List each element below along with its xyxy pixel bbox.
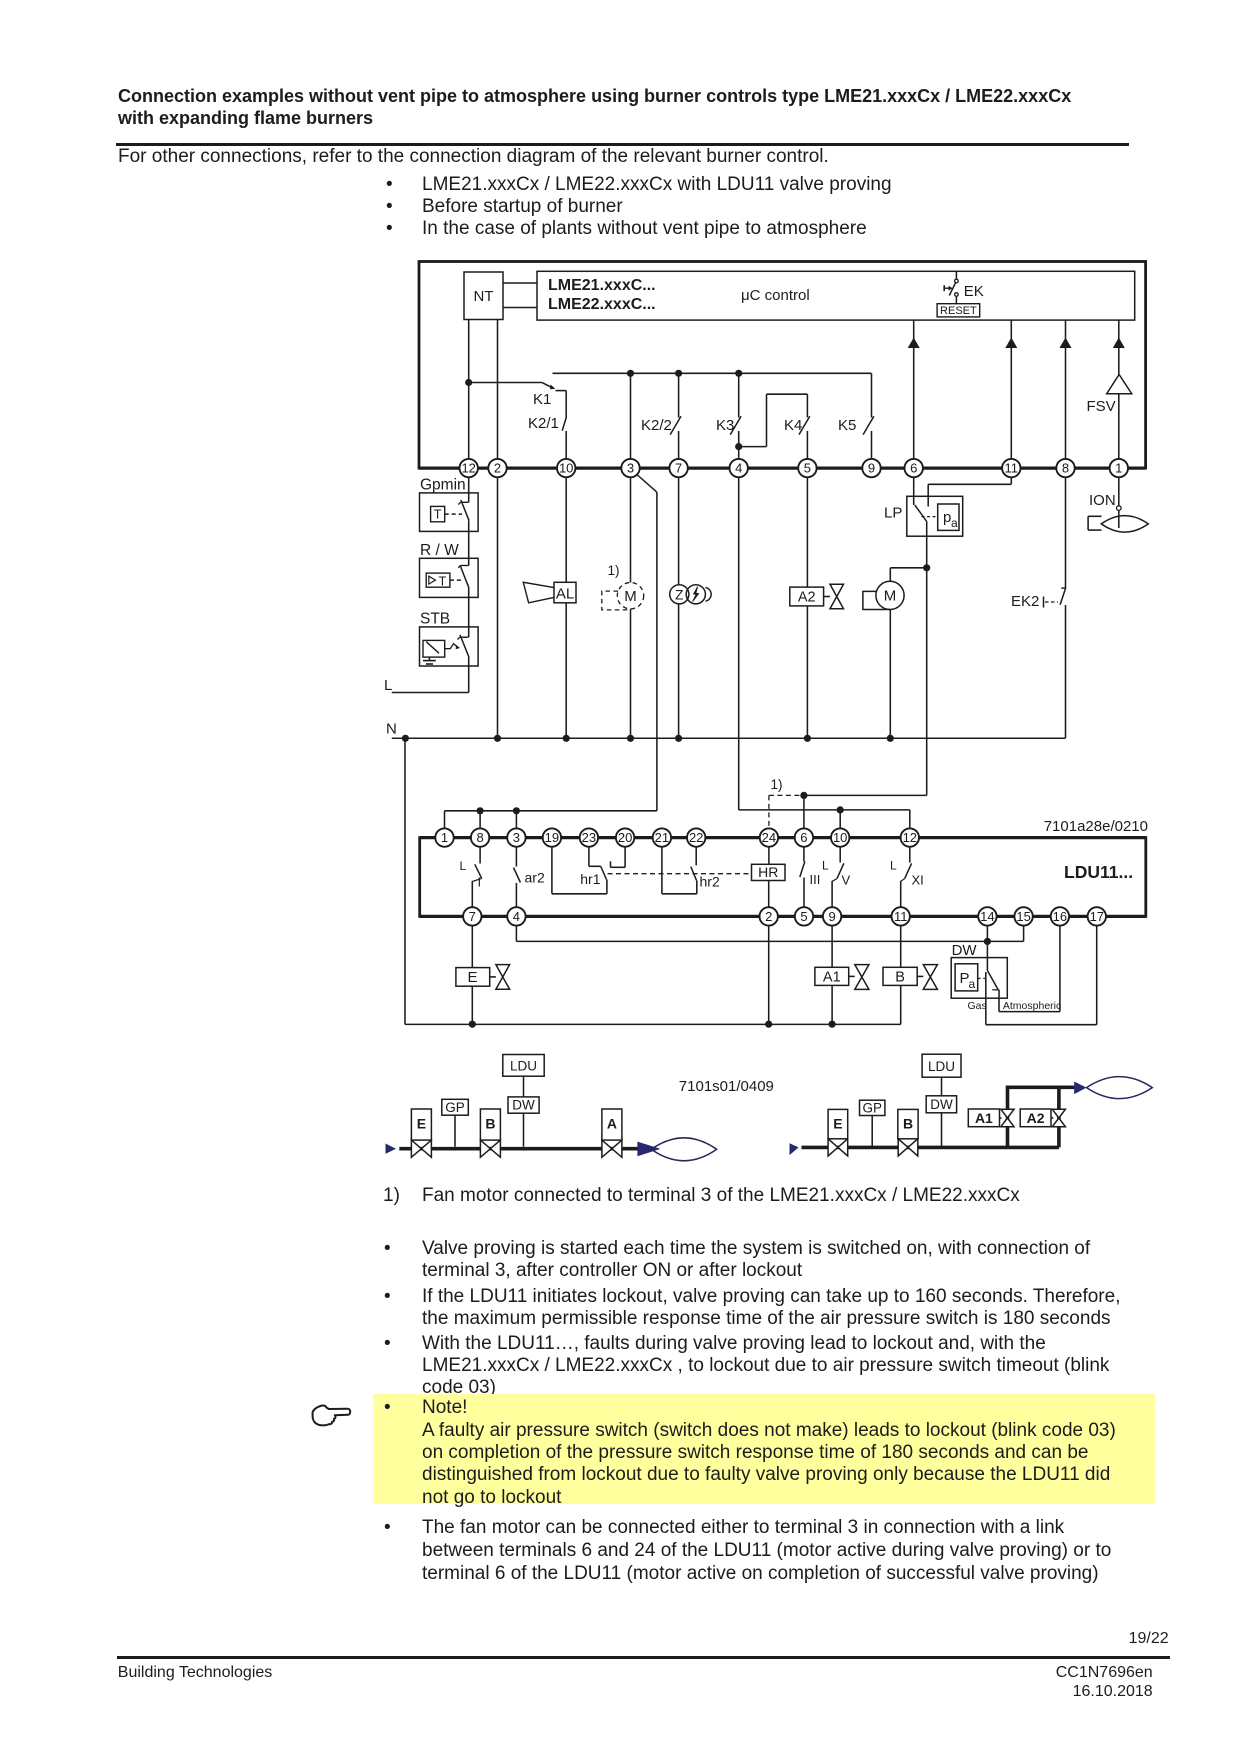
svg-text:Gpmin: Gpmin	[420, 477, 466, 494]
svg-text:6: 6	[910, 461, 917, 476]
svg-text:T: T	[434, 508, 442, 522]
svg-text:2: 2	[765, 909, 772, 924]
svg-text:19: 19	[545, 830, 559, 845]
svg-text:EK2: EK2	[1011, 593, 1039, 610]
svg-text:8: 8	[1062, 461, 1069, 476]
svg-text:4: 4	[735, 461, 742, 476]
svg-text:LP: LP	[884, 505, 902, 522]
svg-text:Gas: Gas	[968, 1000, 987, 1012]
svg-text:K1: K1	[533, 391, 551, 408]
svg-text:STB: STB	[420, 611, 450, 628]
svg-text:V: V	[842, 873, 851, 888]
svg-text:K3: K3	[716, 417, 734, 434]
svg-text:9: 9	[828, 909, 835, 924]
svg-text:1): 1)	[608, 563, 620, 578]
svg-text:LDU11...: LDU11...	[1064, 862, 1133, 882]
svg-text:Z: Z	[675, 587, 683, 602]
svg-text:EK: EK	[964, 283, 984, 300]
svg-text:a: a	[951, 516, 958, 530]
svg-text:L: L	[890, 859, 897, 873]
svg-text:L: L	[822, 859, 829, 873]
svg-text:K2/1: K2/1	[528, 415, 559, 432]
svg-text:3: 3	[513, 830, 520, 845]
svg-text:M: M	[624, 588, 637, 605]
svg-text:7101a28e/0210: 7101a28e/0210	[1044, 818, 1148, 835]
svg-text:2: 2	[494, 461, 501, 476]
svg-text:7101s01/0409: 7101s01/0409	[679, 1078, 774, 1095]
svg-text:DW: DW	[512, 1098, 535, 1113]
svg-text:B: B	[903, 1116, 913, 1132]
svg-text:5: 5	[800, 909, 807, 924]
svg-text:B: B	[485, 1116, 495, 1132]
svg-text:A1: A1	[823, 970, 841, 986]
svg-text:ION: ION	[1089, 492, 1116, 509]
svg-text:hr1: hr1	[580, 871, 600, 887]
svg-text:A1: A1	[975, 1110, 993, 1126]
svg-text:K5: K5	[838, 417, 856, 434]
svg-text:12: 12	[461, 461, 475, 476]
svg-text:A2: A2	[798, 590, 816, 606]
svg-text:12: 12	[903, 830, 917, 845]
svg-text:10: 10	[833, 830, 847, 845]
svg-text:L: L	[460, 859, 467, 873]
svg-text:ar2: ar2	[525, 870, 545, 886]
svg-text:HR: HR	[758, 864, 778, 880]
svg-text:A: A	[607, 1116, 617, 1132]
svg-text:NT: NT	[474, 288, 494, 305]
svg-text:E: E	[467, 969, 477, 986]
svg-text:22: 22	[689, 830, 703, 845]
svg-text:24: 24	[762, 830, 776, 845]
svg-text:XI: XI	[912, 873, 924, 888]
svg-text:14: 14	[980, 909, 994, 924]
svg-text:11: 11	[1005, 461, 1019, 476]
svg-text:GP: GP	[862, 1101, 882, 1116]
svg-text:AL: AL	[556, 585, 574, 602]
svg-text:III: III	[810, 872, 821, 887]
svg-text:17: 17	[1090, 909, 1104, 924]
svg-text:RESET: RESET	[940, 305, 977, 317]
svg-text:11: 11	[894, 909, 908, 924]
svg-text:M: M	[884, 588, 897, 605]
svg-text:10: 10	[559, 461, 573, 476]
svg-text:K4: K4	[784, 417, 802, 434]
svg-text:LDU: LDU	[510, 1059, 537, 1074]
svg-text:7: 7	[469, 909, 476, 924]
svg-text:FSV: FSV	[1087, 398, 1116, 415]
svg-text:E: E	[833, 1116, 842, 1132]
svg-text:R / W: R / W	[420, 542, 459, 559]
svg-text:21: 21	[655, 830, 669, 845]
svg-text:a: a	[969, 977, 976, 991]
svg-text:DW: DW	[952, 942, 978, 959]
svg-text:8: 8	[476, 830, 483, 845]
svg-text:1: 1	[441, 830, 448, 845]
svg-text:DW: DW	[930, 1097, 953, 1112]
svg-text:LME22.xxxC...: LME22.xxxC...	[548, 296, 656, 313]
svg-text:Atmospheric: Atmospheric	[1003, 1000, 1061, 1012]
svg-text:L: L	[384, 677, 392, 694]
svg-text:GP: GP	[445, 1100, 465, 1115]
svg-text:I: I	[478, 875, 482, 890]
svg-text:6: 6	[800, 830, 807, 845]
svg-text:N: N	[386, 721, 397, 738]
svg-text:23: 23	[582, 830, 596, 845]
svg-text:T: T	[439, 574, 447, 588]
svg-text:A2: A2	[1027, 1110, 1045, 1126]
svg-text:LDU: LDU	[928, 1059, 955, 1074]
svg-text:1: 1	[1115, 461, 1122, 476]
svg-text:B: B	[895, 970, 905, 986]
svg-text:15: 15	[1016, 909, 1030, 924]
svg-text:16: 16	[1053, 909, 1067, 924]
svg-text:9: 9	[868, 461, 875, 476]
svg-text:K2/2: K2/2	[641, 417, 672, 434]
svg-text:LME21.xxxC...: LME21.xxxC...	[548, 277, 656, 294]
svg-text:E: E	[417, 1116, 426, 1132]
svg-text:7: 7	[675, 461, 682, 476]
svg-text:5: 5	[804, 461, 811, 476]
svg-text:1): 1)	[771, 777, 783, 792]
svg-text:hr2: hr2	[700, 874, 720, 890]
svg-text:20: 20	[618, 830, 632, 845]
svg-text:μC control: μC control	[741, 287, 810, 304]
svg-text:3: 3	[627, 461, 634, 476]
svg-text:4: 4	[513, 909, 520, 924]
